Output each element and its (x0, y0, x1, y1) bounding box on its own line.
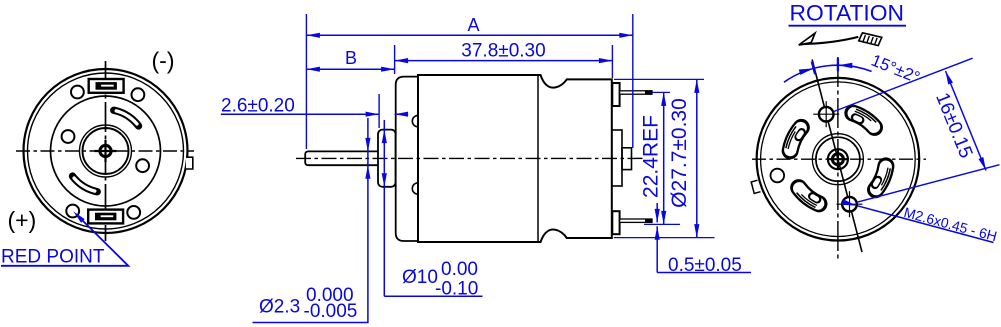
front view vent slot at -57 deg (852, 108, 879, 130)
front view ring r25 (812, 134, 863, 185)
svg-text:M2.6x0.45 - 6H: M2.6x0.45 - 6H (902, 204, 999, 244)
motor shaft (305, 151, 378, 165)
rotation hatched flag (859, 33, 882, 46)
svg-text:B: B (345, 48, 357, 68)
dim 16 line (946, 71, 987, 171)
svg-text:Ø2.3: Ø2.3 (259, 297, 300, 318)
dim 22.4 arrow top (661, 92, 666, 106)
svg-text:(-): (-) (152, 48, 175, 74)
dim dia2.3 line (367, 118, 369, 323)
left view hole lower-left (red point hole) (66, 205, 79, 218)
dim B arrow left (306, 67, 320, 72)
front view vertical centerline (837, 57, 839, 262)
side view horizontal centerline (296, 157, 644, 159)
front endbell hole bump upper (412, 115, 418, 126)
dim 15deg arrow on vertical line (838, 63, 853, 69)
svg-text:A: A (467, 15, 479, 35)
left view bearing boss inner circle (83, 128, 129, 174)
dim dia10 text (402, 259, 478, 300)
front view vent slot at -154 deg (784, 125, 803, 152)
dim 37.8 arrow right (599, 58, 613, 63)
front view casing seam tab left (751, 180, 760, 193)
front view ring r22 (816, 137, 860, 181)
red point leader arrowhead (73, 211, 84, 222)
svg-text:-0.10: -0.10 (435, 279, 478, 300)
front view horizontal centerline (752, 158, 926, 160)
dim 0.5 shelf (657, 272, 751, 274)
dim dia2.3 arrow top (365, 138, 370, 152)
front view vent slot at 24 deg (873, 165, 892, 192)
dim dia2.3 text (259, 285, 357, 322)
front view shaft circle with cross (827, 148, 849, 170)
dim 16 extension line 2 (857, 165, 1000, 203)
left view outer casing circle (24, 69, 188, 233)
dim dia27.7 extension top (614, 78, 704, 80)
svg-text:-0.005: -0.005 (304, 301, 358, 322)
front view outer casing circle (757, 78, 920, 241)
left view bottom brush cap (88, 210, 123, 224)
rotation arrowhead open (799, 33, 815, 45)
screw hole axis line (812, 60, 862, 253)
dim 37.8 arrow left (395, 58, 409, 63)
dim dia2.3 arrow bottom (365, 165, 370, 179)
svg-text:(+): (+) (8, 207, 37, 233)
svg-text:22.4REF: 22.4REF (640, 115, 663, 198)
screw hole M2.6 #2 (837, 191, 863, 217)
svg-text:37.8±0.30: 37.8±0.30 (461, 41, 545, 62)
can front crimp edge (417, 77, 419, 241)
dim 37.8 extension left (394, 45, 396, 74)
left view vent slot upper-right (114, 110, 139, 126)
front view ring r10 (828, 149, 848, 169)
left view vertical centerline (105, 61, 107, 241)
dim dia27.7 arrow bottom (694, 224, 699, 238)
screw hole M2.6 #1 (813, 101, 839, 127)
dim 2.6 extension line (378, 94, 380, 128)
dim 15deg arc (784, 65, 872, 82)
dim dia10 line (383, 120, 385, 296)
red point leader underline (1, 215, 128, 266)
left view hole upper-left (71, 86, 84, 99)
front endbell hole bump lower (412, 183, 418, 194)
dim A arrow right (619, 33, 633, 38)
svg-text:ROTATION: ROTATION (790, 1, 905, 26)
left view hole lower-right (127, 206, 140, 219)
dim 2.6 arrow right-pointing (366, 112, 380, 117)
svg-text:0.00: 0.00 (441, 259, 478, 280)
left view inner casing circle (28, 73, 184, 229)
rear endcap plate (612, 130, 622, 186)
svg-text:RED POINT: RED POINT (1, 247, 105, 268)
can rear seam line (537, 75, 539, 241)
dim 16 arrow top (946, 71, 954, 85)
dim 2.6 shelf line (221, 113, 379, 115)
dim 0.5 upper arrow (655, 203, 660, 222)
dim 15deg tick on axis side (812, 62, 815, 75)
left view shaft circle with center cross (95, 140, 117, 162)
left view vent slot lower-left (73, 176, 98, 192)
left view casing seam tab right (186, 157, 193, 169)
rear bearing boss (622, 148, 632, 170)
left view hole mid-left (62, 130, 75, 143)
dim 15deg arrow on axis line (799, 68, 814, 75)
dim 37.8 extension right (611, 45, 613, 78)
front view vent slot at 128 deg (795, 186, 821, 209)
svg-text:Ø10: Ø10 (402, 267, 438, 288)
leader M2.6 line (858, 206, 994, 243)
front view plain hole left (771, 169, 785, 183)
dim 22.4 arrow bottom (661, 211, 666, 225)
dim B arrow right (381, 67, 395, 72)
dim B line (306, 68, 394, 70)
dim dia2.3 shelf (253, 322, 369, 324)
left view hole upper-right (132, 88, 145, 101)
svg-text:2.6±0.20: 2.6±0.20 (221, 95, 295, 116)
dim 22.4 extension bottom (644, 223, 680, 225)
dim 16 arrow bottom (979, 157, 987, 171)
dim A line (306, 34, 632, 36)
front view inner casing circle (761, 82, 916, 237)
left view end-cap face circle (51, 96, 161, 206)
dim dia27.7 line (696, 79, 698, 237)
dim 0.5 lower arrow and stem (655, 226, 660, 272)
dim 37.8 line (395, 60, 613, 62)
leader M2.6 arrowhead (842, 199, 857, 206)
left view hole mid-right (136, 159, 149, 172)
rotation label underline (789, 25, 907, 27)
front endbell (396, 77, 418, 241)
left view bearing boss outer circle (80, 125, 132, 177)
top terminal (612, 83, 652, 106)
motor can body outline (418, 75, 612, 242)
dim 22.4 line (663, 92, 665, 224)
dim dia10 arrow top (382, 130, 387, 144)
dim A extension line left (305, 14, 307, 149)
dim dia10 arrow bottom (382, 173, 387, 187)
shaft bushing collar (378, 130, 396, 187)
dim dia27.7 arrow top (694, 79, 699, 93)
dim A arrow left (306, 33, 320, 38)
left view horizontal centerline (16, 150, 194, 152)
dim 2.6 opposite arrow (395, 112, 409, 117)
svg-text:0.5±0.05: 0.5±0.05 (668, 255, 742, 276)
rotation direction arc (801, 37, 858, 44)
svg-text:16±0.15: 16±0.15 (931, 90, 976, 161)
bottom terminal (612, 211, 652, 234)
dim A extension line right (632, 14, 634, 148)
svg-text:Ø27.7±0.30: Ø27.7±0.30 (668, 98, 691, 208)
dim dia27.7 extension bottom (614, 237, 715, 239)
dim 16 extension line 1 (834, 58, 973, 111)
svg-text:15°±2°: 15°±2° (869, 51, 923, 88)
dim 15deg tick on vertical side (837, 58, 839, 71)
dim 22.4 extension top (652, 91, 670, 93)
dim dia10 shelf (384, 295, 482, 297)
left view top brush cap (89, 79, 124, 93)
